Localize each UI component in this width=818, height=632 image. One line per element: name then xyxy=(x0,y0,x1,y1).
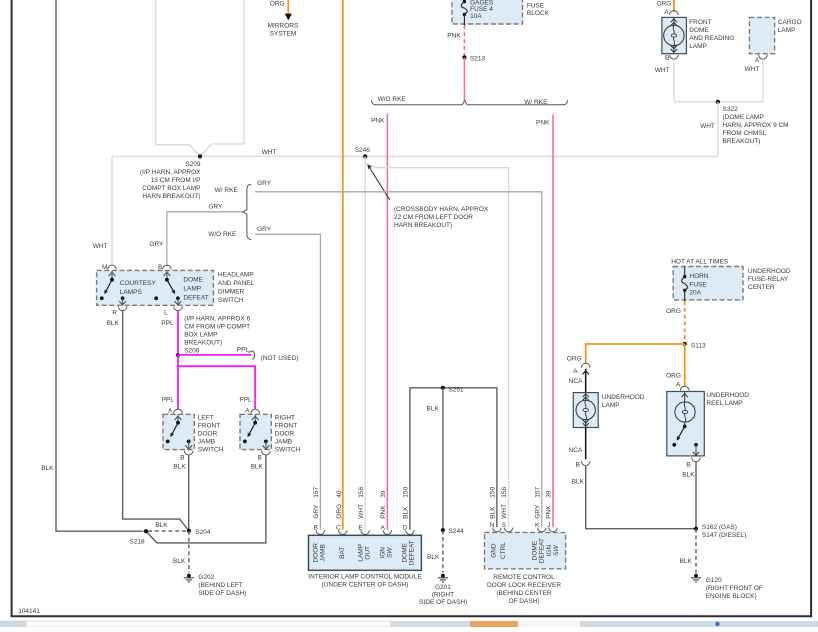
svg-text:WHT: WHT xyxy=(700,123,715,130)
svg-text:LAMP: LAMP xyxy=(778,27,796,34)
svg-text:PPL: PPL xyxy=(237,346,250,353)
right front door jamb switch contacts xyxy=(254,415,256,423)
svg-text:(NOT USED): (NOT USED) xyxy=(261,355,299,362)
svg-text:WHT: WHT xyxy=(262,149,277,156)
svg-text:GRY: GRY xyxy=(208,203,223,210)
svg-text:S213: S213 xyxy=(470,55,486,62)
wire NCA underhood lamp xyxy=(585,369,587,393)
ground G120 xyxy=(694,574,698,578)
svg-text:S244: S244 xyxy=(449,528,465,535)
svg-text:R: R xyxy=(112,310,117,317)
svg-text:104141: 104141 xyxy=(18,608,40,615)
svg-text:HARN, APPROX 9 CM: HARN, APPROX 9 CM xyxy=(723,122,789,129)
svg-text:REEL LAMP: REEL LAMP xyxy=(706,400,742,407)
node S162/S147 xyxy=(694,527,698,531)
fuse block GAGES FUSE 4 box xyxy=(452,0,523,24)
svg-text:GRY: GRY xyxy=(535,504,542,519)
svg-text:CM FROM I/P COMPT: CM FROM I/P COMPT xyxy=(184,323,250,330)
node S213 xyxy=(462,55,466,59)
fuse GAGES FUSE 4 element xyxy=(463,0,465,2)
svg-text:BLK: BLK xyxy=(173,558,186,565)
svg-text:MIRRORS: MIRRORS xyxy=(268,22,299,29)
svg-text:S251: S251 xyxy=(448,387,464,394)
not used connector arc xyxy=(249,351,255,360)
svg-text:WHT: WHT xyxy=(744,66,759,73)
svg-text:BLK: BLK xyxy=(251,464,264,471)
svg-text:BLK: BLK xyxy=(173,464,186,471)
wire WHT cargo lamp pin A down xyxy=(762,59,764,102)
wire BLK reel lamp to S162 xyxy=(695,462,697,529)
svg-text:S147 (DIESEL): S147 (DIESEL) xyxy=(702,532,746,539)
interior lamp control module box xyxy=(309,535,422,570)
svg-text:WHT: WHT xyxy=(93,243,108,250)
left front door jamb switch box xyxy=(163,414,194,449)
svg-text:W/ RKE: W/ RKE xyxy=(524,99,548,106)
svg-text:S218: S218 xyxy=(129,538,145,545)
svg-text:PNK: PNK xyxy=(546,505,553,519)
svg-text:D: D xyxy=(403,524,408,531)
svg-text:40: 40 xyxy=(336,490,343,498)
pin B right front door jamb switch xyxy=(262,451,271,455)
svg-text:AND READING: AND READING xyxy=(689,35,734,42)
svg-text:SIDE OF DASH): SIDE OF DASH) xyxy=(198,590,246,597)
svg-text:DOME: DOME xyxy=(183,277,203,284)
svg-text:A: A xyxy=(573,368,578,375)
receiver pin arcs xyxy=(493,528,501,532)
wire PNK from S213 to split brace xyxy=(463,57,465,100)
svg-text:HOT AT ALL TIMES: HOT AT ALL TIMES xyxy=(671,258,729,265)
underhood lamp box xyxy=(573,393,598,428)
diagram frame right border xyxy=(810,0,812,617)
svg-text:FUSE-RELAY: FUSE-RELAY xyxy=(748,276,789,283)
svg-text:LAMP: LAMP xyxy=(689,43,707,50)
svg-text:LAMP: LAMP xyxy=(358,544,365,562)
svg-text:156: 156 xyxy=(358,486,365,497)
arrow to mirrors system xyxy=(285,14,292,21)
svg-text:G202: G202 xyxy=(198,574,214,581)
svg-text:39: 39 xyxy=(380,490,387,498)
svg-text:DEFEAT: DEFEAT xyxy=(539,538,546,563)
svg-text:DEFEAT: DEFEAT xyxy=(408,540,415,565)
svg-text:SYSTEM: SYSTEM xyxy=(270,30,297,37)
wire ORG S113 to reel lamp pin A xyxy=(684,344,686,386)
wire PNK dashed below fuse block xyxy=(463,26,465,58)
wire WHT 156 branch to receiver pin S xyxy=(365,164,508,528)
node S204 xyxy=(187,529,191,533)
underhood reel lamp box xyxy=(667,392,705,456)
svg-text:CENTER: CENTER xyxy=(748,284,775,291)
svg-text:PNK: PNK xyxy=(447,32,461,39)
svg-text:(RIGHT: (RIGHT xyxy=(432,591,454,598)
svg-text:S209: S209 xyxy=(185,161,201,168)
wire NCA underhood lamp below box xyxy=(585,428,587,460)
svg-text:FRONT: FRONT xyxy=(689,19,711,26)
svg-text:ORG: ORG xyxy=(567,355,582,362)
reel lamp symbol and switch xyxy=(684,392,686,402)
svg-text:JAMB: JAMB xyxy=(275,438,292,445)
svg-text:(I/P HARN, APPROX: (I/P HARN, APPROX xyxy=(140,169,201,176)
svg-text:HARN BREAKOUT): HARN BREAKOUT) xyxy=(394,222,452,229)
wire WHT main horizontal S209-S246-S322 xyxy=(112,155,718,157)
svg-text:157: 157 xyxy=(313,486,320,497)
node S209 xyxy=(198,154,202,158)
svg-text:N: N xyxy=(490,522,495,529)
horn fuse element xyxy=(684,267,686,277)
svg-text:HEADLAMP: HEADLAMP xyxy=(218,271,254,278)
svg-text:GRY: GRY xyxy=(257,226,272,233)
wire ORG 40 from top to interior lamp control module pin C xyxy=(342,0,344,530)
svg-text:RIGHT: RIGHT xyxy=(275,414,295,421)
svg-text:ORG: ORG xyxy=(657,1,672,8)
wire WHT S322 down to main line xyxy=(717,102,719,157)
svg-text:GRY: GRY xyxy=(149,241,164,248)
svg-text:S208: S208 xyxy=(184,347,200,354)
svg-text:BREAKOUT): BREAKOUT) xyxy=(184,339,222,346)
svg-text:BLK: BLK xyxy=(427,554,440,561)
node S113 xyxy=(683,342,687,346)
svg-text:S322: S322 xyxy=(723,106,739,113)
wire ORG S113 to underhood lamp pin A xyxy=(586,344,685,363)
svg-text:BLK: BLK xyxy=(682,472,695,479)
svg-text:NCA: NCA xyxy=(569,447,583,454)
svg-text:JAMB: JAMB xyxy=(319,544,326,561)
svg-text:PPL: PPL xyxy=(161,320,174,327)
svg-text:A: A xyxy=(245,407,250,414)
wire BLK underhood lamp to S162 xyxy=(586,466,696,529)
svg-text:20A: 20A xyxy=(689,289,701,296)
svg-text:DOOR: DOOR xyxy=(198,430,218,437)
node S322 xyxy=(716,100,720,104)
svg-text:FRONT: FRONT xyxy=(198,422,220,429)
wire BLK dashed S244 to ground G201 xyxy=(442,530,444,572)
svg-text:OUT: OUT xyxy=(365,546,372,560)
svg-text:DOME: DOME xyxy=(689,27,709,34)
svg-text:SW: SW xyxy=(386,547,393,558)
svg-text:UNDERHOOD: UNDERHOOD xyxy=(748,268,791,275)
wire BLK left door jamb pin B to S204 xyxy=(188,455,190,531)
svg-text:UNDERHOOD: UNDERHOOD xyxy=(706,392,749,399)
svg-text:BAT: BAT xyxy=(339,547,346,559)
pin B left front door jamb switch xyxy=(184,451,193,455)
svg-text:OF DASH): OF DASH) xyxy=(508,598,539,605)
wire PPL not used branch xyxy=(178,354,251,356)
svg-text:DOME: DOME xyxy=(532,540,539,560)
svg-text:SWITCH: SWITCH xyxy=(275,446,301,453)
headlamp and panel dimmer switch box xyxy=(97,270,214,305)
split brace GRY W RKE / WO RKE xyxy=(243,184,251,239)
svg-text:39: 39 xyxy=(546,490,553,498)
svg-text:JAMB: JAMB xyxy=(198,438,215,445)
svg-text:DOOR LOCK RECEIVER: DOOR LOCK RECEIVER xyxy=(487,582,561,589)
svg-text:BLK: BLK xyxy=(680,558,693,565)
diagram frame left border xyxy=(11,0,13,617)
svg-text:A: A xyxy=(168,407,173,414)
node S218 xyxy=(144,529,148,533)
svg-text:S162 (GAS): S162 (GAS) xyxy=(702,524,737,531)
svg-text:LEFT: LEFT xyxy=(198,414,214,421)
svg-text:GRY: GRY xyxy=(257,180,272,187)
crossbody callout arrow xyxy=(369,167,390,200)
svg-text:A: A xyxy=(755,57,760,64)
svg-text:(I/P HARN, APPROX 6: (I/P HARN, APPROX 6 xyxy=(184,315,250,322)
pin L dome lamp defeat xyxy=(174,306,183,310)
wire BLK right door jamb pin B to S218 xyxy=(146,455,266,543)
pin R courtesy lamps xyxy=(118,306,127,310)
svg-text:(RIGHT FRONT OF: (RIGHT FRONT OF xyxy=(706,585,763,592)
courtesy lamps switch xyxy=(111,271,113,280)
svg-text:INTERIOR LAMP CONTROL MODULE: INTERIOR LAMP CONTROL MODULE xyxy=(308,573,422,580)
underhood lamp symbol xyxy=(585,393,587,401)
svg-text:B: B xyxy=(686,462,690,469)
wire BLK left vertical to S218 xyxy=(56,0,144,531)
svg-text:BREAKOUT): BREAKOUT) xyxy=(723,138,761,145)
wire WHT front dome pin B down xyxy=(673,59,675,102)
svg-text:IGN: IGN xyxy=(546,545,553,557)
svg-text:FROM CHMSL: FROM CHMSL xyxy=(723,130,767,137)
svg-text:ORG: ORG xyxy=(336,504,343,519)
svg-text:LAMP: LAMP xyxy=(602,402,620,409)
svg-text:BLK: BLK xyxy=(155,522,168,529)
svg-text:W/O RKE: W/O RKE xyxy=(378,96,407,103)
svg-text:22 CM FROM LEFT DOOR: 22 CM FROM LEFT DOOR xyxy=(394,214,473,221)
wire WHT branch to courtesy lamps pin M xyxy=(111,156,113,265)
svg-text:DIMMER: DIMMER xyxy=(218,288,245,295)
svg-text:A: A xyxy=(676,381,681,388)
wire BLK S251 down to S244 xyxy=(442,388,444,530)
svg-text:WHT: WHT xyxy=(358,504,365,519)
svg-text:10A: 10A xyxy=(470,13,482,20)
wire PPL from pin L to S208 xyxy=(177,311,179,356)
svg-text:COURTESY: COURTESY xyxy=(120,280,157,287)
svg-text:S204: S204 xyxy=(195,529,211,536)
wire ORG stub to mirrors system xyxy=(287,0,289,14)
svg-text:NCA: NCA xyxy=(569,378,583,385)
svg-text:GRY: GRY xyxy=(313,504,320,519)
svg-text:GND: GND xyxy=(491,543,498,558)
svg-text:BLK: BLK xyxy=(41,465,54,472)
node S244 xyxy=(441,528,445,532)
svg-text:PPL: PPL xyxy=(239,397,252,404)
front dome and reading lamp box xyxy=(662,17,687,53)
svg-text:S246: S246 xyxy=(355,147,371,154)
svg-text:BLK: BLK xyxy=(427,405,440,412)
svg-text:PNK: PNK xyxy=(536,120,550,127)
wire GRY 157 (W/ RKE) to receiver pin K xyxy=(255,192,542,527)
svg-text:G201: G201 xyxy=(435,584,451,591)
svg-text:IGN: IGN xyxy=(379,547,386,559)
bottom bar xyxy=(0,621,26,628)
svg-text:(DOME LAMP: (DOME LAMP xyxy=(723,114,764,121)
svg-text:CTRL: CTRL xyxy=(500,542,507,559)
wire PNK 39 (W/ RKE) to receiver pin J xyxy=(552,115,554,528)
ground G201 xyxy=(441,574,445,578)
svg-text:B: B xyxy=(257,454,261,461)
svg-text:HARN BREAKOUT): HARN BREAKOUT) xyxy=(142,193,200,200)
svg-text:DEFEAT: DEFEAT xyxy=(183,295,208,302)
svg-text:B: B xyxy=(576,462,580,469)
svg-text:SWITCH: SWITCH xyxy=(218,297,244,304)
svg-text:B: B xyxy=(665,55,669,62)
cargo lamp box xyxy=(749,17,774,53)
ground G202 xyxy=(187,574,191,578)
svg-text:BOX LAMP: BOX LAMP xyxy=(184,331,217,338)
dome lamp defeat switch xyxy=(166,271,168,280)
svg-text:ORG: ORG xyxy=(666,373,681,380)
svg-text:(UNDER CENTER OF DASH): (UNDER CENTER OF DASH) xyxy=(322,582,409,589)
svg-text:13 CM FROM I/P: 13 CM FROM I/P xyxy=(151,177,201,184)
svg-text:COMPT BOX LAMP: COMPT BOX LAMP xyxy=(142,185,200,192)
wire BLK dashed S218 to S204 xyxy=(148,530,187,532)
underhood fuse-relay center box xyxy=(673,267,743,300)
svg-text:REMOTE CONTROL: REMOTE CONTROL xyxy=(493,574,555,581)
node S246 xyxy=(363,154,367,158)
svg-text:PNK: PNK xyxy=(380,505,387,519)
wire PPL branch to right door jamb switch pin A xyxy=(178,366,255,409)
svg-text:A: A xyxy=(664,9,669,16)
svg-text:UNDERHOOD: UNDERHOOD xyxy=(602,394,645,401)
svg-text:W/ RKE: W/ RKE xyxy=(215,187,239,194)
svg-text:AND PANEL: AND PANEL xyxy=(218,280,255,287)
svg-text:DOME: DOME xyxy=(401,542,408,562)
remote control door lock receiver box xyxy=(485,532,566,568)
svg-text:DOOR: DOOR xyxy=(312,543,319,563)
svg-text:150: 150 xyxy=(403,486,410,497)
wire GRY 157 (W/O RKE) to module pin B xyxy=(255,234,320,530)
svg-text:B: B xyxy=(313,524,317,531)
svg-text:WHT: WHT xyxy=(501,504,508,519)
svg-text:ENGINE BLOCK): ENGINE BLOCK) xyxy=(706,593,757,600)
svg-text:ORG: ORG xyxy=(270,1,285,8)
svg-text:BLK: BLK xyxy=(107,320,120,327)
svg-text:G120: G120 xyxy=(706,577,722,584)
svg-text:L: L xyxy=(164,310,168,317)
wire WHT joining dome and cargo to S322 xyxy=(674,101,763,103)
svg-text:FUSE: FUSE xyxy=(689,281,707,288)
svg-text:WHT: WHT xyxy=(655,67,670,74)
wire BLK dashed S162 to ground G120 xyxy=(695,529,697,573)
left front door jamb switch contacts xyxy=(177,415,179,423)
svg-text:HORN: HORN xyxy=(689,273,708,280)
svg-text:150: 150 xyxy=(490,486,497,497)
module pin arcs xyxy=(316,530,324,534)
split brace W/O RKE | W/ RKE xyxy=(372,100,568,105)
svg-text:PPL: PPL xyxy=(162,397,175,404)
right front door jamb switch box xyxy=(240,414,271,449)
svg-text:LAMPS: LAMPS xyxy=(120,289,143,296)
svg-text:FUSE: FUSE xyxy=(527,3,545,10)
svg-text:BLK: BLK xyxy=(403,506,410,519)
svg-text:157: 157 xyxy=(535,486,542,497)
svg-text:ORG: ORG xyxy=(666,308,681,315)
node S251 xyxy=(441,386,445,390)
svg-text:BLK: BLK xyxy=(572,478,585,485)
svg-text:DOOR: DOOR xyxy=(275,430,295,437)
svg-text:B: B xyxy=(180,454,184,461)
wire BLK S251 net to module pin D and receiver pin N xyxy=(410,388,497,530)
svg-text:S113: S113 xyxy=(691,342,706,349)
wire GRY from dimmer switch pin B xyxy=(167,212,243,265)
svg-text:FRONT: FRONT xyxy=(275,422,297,429)
svg-text:SWITCH: SWITCH xyxy=(198,446,224,453)
svg-text:SW: SW xyxy=(553,545,560,556)
svg-text:LAMP: LAMP xyxy=(183,286,201,293)
svg-text:W/O RKE: W/O RKE xyxy=(208,231,237,238)
wire BLK dashed S204 to ground G202 xyxy=(188,531,190,573)
svg-text:(BEHIND LEFT: (BEHIND LEFT xyxy=(198,582,242,589)
svg-text:SIDE OF DASH): SIDE OF DASH) xyxy=(419,599,467,606)
wire WHT 156 S246 down to module pin E xyxy=(364,156,366,529)
node S208 xyxy=(176,353,180,357)
svg-text:BLK: BLK xyxy=(490,506,497,519)
wire ORG to front dome lamp pin A xyxy=(673,0,675,12)
svg-text:PNK: PNK xyxy=(371,117,385,124)
front dome lamp symbol xyxy=(673,17,675,25)
svg-text:CARGO: CARGO xyxy=(778,19,802,26)
wire BLK from courtesy pin R to S204 xyxy=(123,310,189,531)
svg-text:(CROSSBODY HARN, APPROX: (CROSSBODY HARN, APPROX xyxy=(394,206,489,213)
wire WHT loop from top into S209 xyxy=(156,0,200,156)
wire PPL S208 to left door jamb switch pin A xyxy=(177,355,179,409)
wire PNK 39 (W/O RKE) to module pin A xyxy=(386,114,388,530)
diagram frame bottom border xyxy=(11,615,813,617)
svg-text:156: 156 xyxy=(501,486,508,497)
wire ORG dashed horn fuse to S113 xyxy=(684,301,686,344)
svg-text:(BEHIND CENTER: (BEHIND CENTER xyxy=(496,590,552,597)
svg-text:BLOCK: BLOCK xyxy=(527,10,550,17)
